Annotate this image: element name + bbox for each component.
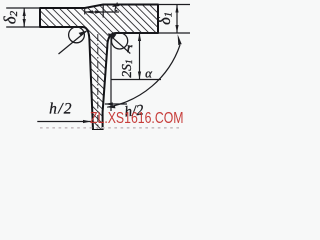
left leader line (59, 31, 87, 54)
dimension line h/2 right (105, 103, 127, 105)
extension line bottom-left (delta2 bottom) (6, 26, 40, 28)
vertical reference line x=111 (110, 36, 112, 111)
arc lower arrow (107, 105, 116, 108)
web centerline (axis) (97, 34, 99, 129)
extension line y=79.5 (111, 79, 161, 81)
dimension line delta1 (176, 5, 178, 34)
dimension line 2S1 (139, 33, 141, 80)
extension line top-left (delta2 top) (6, 7, 40, 9)
arrow delta1 top (175, 5, 178, 13)
svg-text:ZL.XS1616.COM: ZL.XS1616.COM (90, 110, 184, 127)
left leader arrow (79, 31, 88, 37)
svg-text:h/2: h/2 (49, 101, 73, 118)
arrow delta2 bottom (23, 19, 26, 27)
faint bottom dotted row (40, 127, 180, 129)
right leader line (108, 34, 130, 54)
right leader arrow (108, 33, 117, 38)
left fillet circle (69, 27, 85, 43)
hatched section body: flange + web (40, 5, 158, 131)
extension line at x=84.7 (84, 8, 86, 15)
arrow h/2 right (105, 102, 113, 105)
arrow 2S1 bottom (138, 72, 141, 80)
angle arc alpha (107, 45, 180, 107)
svg-text:r: r (127, 41, 133, 56)
label t (113, 3, 119, 11)
arrow delta2 top (23, 8, 26, 16)
extension line top-right (delta1 top) (158, 4, 190, 6)
extension line at x=103 (102, 5, 104, 18)
dimension line delta2 (23, 8, 25, 27)
arc upper arrow (178, 34, 182, 45)
arrow t right (95, 10, 103, 13)
extension line bottom-right (flange bottom) (112, 32, 190, 34)
dimension line h/2 left (37, 121, 91, 123)
arrow t left (85, 10, 93, 13)
dimension line t (85, 11, 119, 13)
right fillet circle (112, 33, 128, 49)
svg-text:α: α (145, 66, 153, 81)
arrow 2S1 top (138, 33, 141, 41)
arrow h/2 left (83, 120, 91, 123)
arrow delta1 bottom (175, 25, 178, 33)
